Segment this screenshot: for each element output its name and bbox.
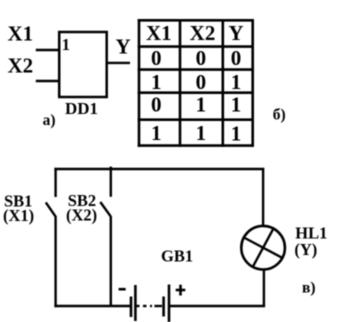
svg-text:(X2): (X2) <box>66 206 97 225</box>
svg-text:Y: Y <box>116 35 131 59</box>
svg-text:(Y): (Y) <box>294 240 317 259</box>
svg-text:а): а) <box>43 112 56 129</box>
svg-text:(X1): (X1) <box>3 206 34 225</box>
svg-text:б): б) <box>273 107 286 124</box>
svg-text:1: 1 <box>196 93 207 117</box>
svg-text:0: 0 <box>196 70 207 94</box>
svg-text:0: 0 <box>151 46 162 70</box>
svg-text:в): в) <box>302 279 316 296</box>
svg-text:X1: X1 <box>146 21 172 45</box>
svg-text:0: 0 <box>151 93 162 117</box>
svg-text:DD1: DD1 <box>65 99 98 118</box>
svg-text:1: 1 <box>151 70 162 94</box>
svg-text:1: 1 <box>196 121 207 145</box>
svg-text:GB1: GB1 <box>161 246 193 265</box>
svg-text:Y: Y <box>228 21 243 45</box>
svg-text:X2: X2 <box>8 54 34 78</box>
svg-text:1: 1 <box>231 121 242 145</box>
svg-text:1: 1 <box>62 35 70 54</box>
svg-text:X1: X1 <box>8 22 34 46</box>
svg-text:1: 1 <box>231 70 242 94</box>
svg-text:X2: X2 <box>190 21 216 45</box>
svg-text:0: 0 <box>231 46 242 70</box>
svg-text:1: 1 <box>151 121 162 145</box>
svg-text:0: 0 <box>196 46 207 70</box>
svg-text:1: 1 <box>231 93 242 117</box>
